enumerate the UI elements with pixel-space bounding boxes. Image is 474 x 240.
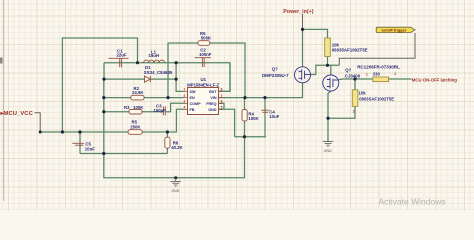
U1 pin names <box>190 90 218 112</box>
wire: SW vertical <box>176 63 183 92</box>
transistor Q1 CJ3400 <box>323 75 339 91</box>
svg-text:24.9K: 24.9K <box>132 90 144 95</box>
svg-text:FREQ: FREQ <box>206 102 216 106</box>
svg-text:D1: D1 <box>145 65 151 70</box>
wire: Q7 gate jog <box>311 65 340 74</box>
wire: COMP path <box>104 103 184 111</box>
resistor R4 <box>242 110 247 122</box>
wire: EN row y=97.6 <box>104 97 184 99</box>
svg-text:10uF: 10uF <box>269 114 279 119</box>
svg-text:CJ3400: CJ3400 <box>345 73 361 78</box>
inductor L1 <box>144 60 165 63</box>
wire: output loop top <box>62 38 137 132</box>
svg-text:2: 2 <box>394 72 396 76</box>
wire: rail C y=136.7 <box>235 136 266 138</box>
wire: rail B y=177.8 <box>104 137 245 178</box>
capacitor C1 <box>109 58 129 67</box>
wire: MCU_VCC row y=132 <box>40 131 167 133</box>
wire: VIN row y=97.6 <box>219 83 303 98</box>
svg-text:7: 7 <box>221 94 223 98</box>
wire: D1 row y=79.1 <box>104 78 176 80</box>
wire: 10k pullup branch <box>303 29 328 65</box>
wire: rail A y=153.5 <box>80 153 167 155</box>
svg-text:SS34_C84635: SS34_C84635 <box>144 70 173 75</box>
svg-text:150pF: 150pF <box>154 108 167 113</box>
wire: C1 left drop <box>103 63 105 79</box>
resistor R5 500K (top) <box>198 41 210 46</box>
svg-text:FB: FB <box>190 108 195 112</box>
wire: Q1 gate row y=79 <box>339 78 412 81</box>
panel edge line <box>3 0 4 201</box>
wire: Power_in vertical <box>302 29 304 66</box>
wire: Q1 source to gnd <box>328 91 331 142</box>
svg-text:SW: SW <box>190 90 196 94</box>
svg-text:4: 4 <box>184 106 186 110</box>
svg-text:COMP: COMP <box>190 102 202 106</box>
wire: R6 branch <box>166 132 168 154</box>
wire: C5 branch <box>79 132 81 154</box>
op-amp U1 MP1584EN-LF-Z body <box>188 88 219 115</box>
svg-text:MCU ON-OFF latching: MCU ON-OFF latching <box>412 78 457 83</box>
svg-text:Activate Windows: Activate Windows <box>379 196 446 206</box>
U1 pin stubs left <box>184 91 223 109</box>
wire: Q1 drain vertical <box>330 65 332 75</box>
svg-text:5: 5 <box>221 106 223 110</box>
svg-text:40.2K: 40.2K <box>171 145 183 150</box>
capacitor C4 <box>261 110 269 112</box>
ground GND (right) <box>323 142 334 147</box>
svg-text:15uH: 15uH <box>149 53 160 58</box>
wire: trigger gray path <box>339 33 415 65</box>
resistor R2 <box>131 95 144 100</box>
ground GND (left) <box>170 178 181 187</box>
wire: FB path <box>167 109 183 132</box>
svg-text:6: 6 <box>221 100 223 104</box>
wire: pin6 freq path <box>219 103 225 109</box>
svg-text:0603SAF1002T5E: 0603SAF1002T5E <box>359 96 394 101</box>
svg-text:EN: EN <box>190 96 195 100</box>
svg-text:500K: 500K <box>201 35 212 40</box>
svg-text:U1: U1 <box>201 77 207 82</box>
resistor 10k pullup (06035AF1002T5E) <box>325 38 331 57</box>
svg-text:1: 1 <box>366 72 368 76</box>
svg-text:GND: GND <box>208 108 217 112</box>
svg-text:BST: BST <box>209 90 217 94</box>
svg-text:8: 8 <box>221 88 223 92</box>
svg-text:10uF: 10uF <box>85 146 95 151</box>
svg-text:2: 2 <box>184 94 186 98</box>
svg-text:100nF: 100nF <box>199 52 212 57</box>
wire: 10k pulldown branch <box>328 79 355 118</box>
wire: gnd vertical x=103.8 <box>103 79 105 153</box>
U1 pin numbers <box>184 88 223 110</box>
svg-text:10k: 10k <box>359 90 367 95</box>
wire: R5 500K loop <box>168 43 245 98</box>
capacitor C5 <box>72 143 84 145</box>
svg-text:GND: GND <box>324 149 332 153</box>
svg-text:MP1584EN-LF-Z: MP1584EN-LF-Z <box>187 83 219 88</box>
resistor 10k pulldown (0603SAF1002T5E) <box>352 90 358 107</box>
svg-text:Q?: Q? <box>345 68 351 73</box>
svg-text:Power_in(+): Power_in(+) <box>283 9 313 15</box>
svg-text:22uF: 22uF <box>117 52 127 57</box>
resistor R6 <box>165 137 170 148</box>
wire: pin5 gnd path <box>219 109 235 136</box>
svg-text:▸MCU_VCC: ▸MCU_VCC <box>0 111 34 117</box>
svg-text:06035AF1002T5E: 06035AF1002T5E <box>332 48 368 53</box>
wire: C4 branch <box>264 98 266 137</box>
resistor 330 (RC1206FR-07330RL) <box>373 77 389 82</box>
svg-text:DMP2305U-7: DMP2305U-7 <box>262 73 289 78</box>
resistor R5 250K <box>128 130 142 135</box>
svg-text:1: 1 <box>184 88 186 92</box>
svg-text:Q?: Q? <box>272 67 278 72</box>
svg-text:GND: GND <box>171 189 179 193</box>
diode D1 <box>145 76 151 82</box>
svg-text:RC1206FR-07330RL: RC1206FR-07330RL <box>357 64 400 69</box>
port on/off trigger flag <box>376 27 415 33</box>
resistor R3 <box>129 109 142 114</box>
svg-text:VIN: VIN <box>210 96 216 100</box>
svg-text:3: 3 <box>184 100 186 104</box>
capacitor C3 <box>163 106 165 115</box>
wire: BST path <box>219 63 231 92</box>
svg-text:330: 330 <box>373 72 381 77</box>
svg-text:on/off trigger: on/off trigger <box>382 28 407 33</box>
svg-text:2: 2 <box>353 109 355 113</box>
capacitor C2 <box>195 58 212 67</box>
wire: output row y=62.7 <box>104 63 230 92</box>
svg-text:R3 100K: R3 100K <box>124 105 144 110</box>
svg-text:100K: 100K <box>248 116 259 121</box>
svg-text:250K: 250K <box>130 124 141 129</box>
wire: R4 branch <box>244 98 246 137</box>
wire: MCU_VCC stub <box>35 113 41 132</box>
panel edge tick <box>0 58 3 64</box>
transistor Q7 DMP2305U-7 <box>295 67 311 83</box>
